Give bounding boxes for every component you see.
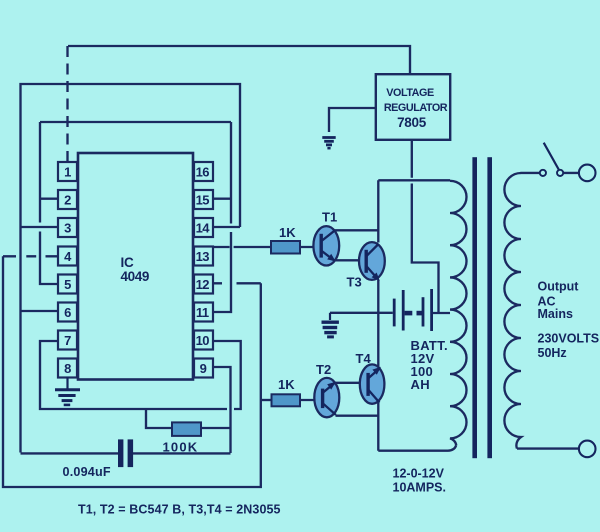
transformer secondary winding bbox=[504, 173, 521, 449]
svg-text:14: 14 bbox=[196, 221, 211, 236]
svg-text:50Hz: 50Hz bbox=[538, 346, 567, 360]
wire secondary bottom to terminal bbox=[517, 447, 579, 449]
wire switch to terminal bbox=[563, 172, 579, 174]
svg-text:1K: 1K bbox=[278, 377, 295, 392]
svg-text:13: 13 bbox=[196, 249, 210, 264]
ground middle bbox=[322, 313, 339, 337]
ground pin8 bbox=[55, 377, 80, 405]
svg-text:4049: 4049 bbox=[121, 269, 149, 284]
svg-text:9: 9 bbox=[200, 361, 207, 376]
wire pin2 bus bbox=[40, 122, 58, 284]
transformer primary winding bbox=[450, 181, 467, 446]
wire pin6 stub bbox=[21, 310, 58, 312]
transformer label bbox=[393, 467, 447, 495]
svg-text:T3: T3 bbox=[347, 275, 362, 290]
wire T1 collector bbox=[334, 229, 378, 231]
svg-text:IC: IC bbox=[121, 255, 135, 270]
wire pin13 to 1K bbox=[213, 246, 271, 248]
transistor Q4 T4 bbox=[356, 351, 385, 404]
resistor R2 1K bbox=[272, 394, 301, 406]
wire B top bbox=[21, 84, 241, 453]
svg-text:6: 6 bbox=[64, 305, 71, 320]
wire secondary top to switch bbox=[521, 172, 540, 174]
svg-text:1: 1 bbox=[64, 165, 71, 180]
wire top rail to regulator bbox=[68, 46, 410, 74]
svg-text:VOLTAGE: VOLTAGE bbox=[386, 87, 434, 99]
wire regulator ground bbox=[329, 108, 376, 132]
ground regulator bbox=[322, 138, 335, 149]
wire T1 emitter to T3 base bbox=[334, 259, 366, 261]
wire left feedback rail bbox=[3, 256, 261, 487]
svg-text:1K: 1K bbox=[279, 225, 296, 240]
svg-text:2: 2 bbox=[64, 193, 71, 208]
svg-text:10AMPS.: 10AMPS. bbox=[393, 481, 447, 495]
capacitor C1 0.094uF bbox=[118, 439, 133, 467]
wire 100K branch bbox=[146, 409, 231, 428]
svg-text:5: 5 bbox=[64, 277, 71, 292]
svg-text:7805: 7805 bbox=[397, 115, 427, 130]
wire pin15 bus bbox=[213, 122, 231, 312]
transistor Q3 T3 bbox=[347, 242, 385, 289]
svg-text:AH: AH bbox=[411, 377, 430, 392]
battery B1 bbox=[393, 289, 433, 331]
wire battery right to center tap bbox=[433, 312, 450, 314]
wire 1K to T1 base bbox=[300, 246, 320, 248]
transistor Q1 T1 bbox=[313, 210, 339, 266]
svg-text:T2: T2 bbox=[316, 362, 331, 377]
svg-text:T1, T2 = BC547 B, T3,T4 = 2N30: T1, T2 = BC547 B, T3,T4 = 2N3055 bbox=[78, 502, 281, 516]
wire pin12 stub bbox=[213, 282, 261, 284]
svg-text:15: 15 bbox=[196, 193, 210, 208]
svg-text:230VOLTS: 230VOLTS bbox=[538, 332, 600, 346]
IC U1 body bbox=[78, 153, 193, 380]
output terminal top bbox=[579, 165, 596, 182]
svg-text:8: 8 bbox=[64, 361, 71, 376]
wire C top bbox=[40, 121, 231, 123]
svg-text:12-0-12V: 12-0-12V bbox=[393, 467, 445, 481]
svg-text:11: 11 bbox=[196, 305, 209, 320]
svg-text:3: 3 bbox=[64, 221, 71, 236]
wire dashed pin1 feed bbox=[66, 46, 68, 162]
resistor R3 100K bbox=[172, 422, 201, 436]
wire T2 emitter to T4 base bbox=[334, 382, 368, 384]
pin numbers bbox=[64, 165, 210, 377]
wire battery left + ground stub bbox=[330, 312, 393, 314]
wire 1K2 to T2 base bbox=[300, 399, 321, 401]
svg-text:7: 7 bbox=[64, 333, 71, 348]
output label bbox=[538, 280, 600, 361]
svg-text:16: 16 bbox=[196, 165, 210, 180]
wire regulator output bbox=[412, 141, 439, 313]
switch SW1 bbox=[540, 143, 563, 176]
pin boxes left 1-8 bbox=[58, 162, 77, 378]
wire primary bottom bbox=[378, 445, 456, 450]
wire pin7 bus bbox=[40, 341, 241, 409]
svg-text:T1: T1 bbox=[322, 210, 337, 225]
wire T2 collector bbox=[336, 415, 379, 417]
transformer core bbox=[472, 157, 477, 458]
wire cap rail bbox=[21, 452, 231, 454]
svg-text:Output: Output bbox=[538, 280, 580, 294]
wire primary top bbox=[378, 179, 450, 181]
wire pin2 stub bbox=[40, 198, 58, 200]
pin boxes right 9-16 bbox=[194, 162, 213, 378]
battery label bbox=[411, 338, 448, 392]
voltage regulator U2 7805 bbox=[376, 74, 450, 140]
output terminal bottom bbox=[579, 441, 596, 458]
wire 1K2 feed bbox=[261, 399, 272, 401]
wire pin3 stub bbox=[21, 226, 58, 228]
svg-text:T4: T4 bbox=[356, 351, 372, 366]
svg-text:0.094uF: 0.094uF bbox=[63, 465, 111, 479]
svg-text:REGULATOR: REGULATOR bbox=[384, 102, 448, 114]
resistor R1 1K bbox=[271, 241, 300, 254]
wire pin15 stub bbox=[213, 198, 231, 200]
transistor Q2 T2 bbox=[314, 362, 339, 417]
wire pin14 stub bbox=[213, 226, 240, 228]
svg-text:12: 12 bbox=[196, 277, 210, 292]
wire center rail bbox=[377, 180, 379, 450]
svg-text:Mains: Mains bbox=[538, 307, 573, 321]
wire pin4 dashed bbox=[3, 255, 58, 257]
wire pin9 bus bbox=[213, 367, 231, 453]
svg-text:10: 10 bbox=[196, 333, 210, 348]
svg-text:100K: 100K bbox=[163, 440, 199, 455]
